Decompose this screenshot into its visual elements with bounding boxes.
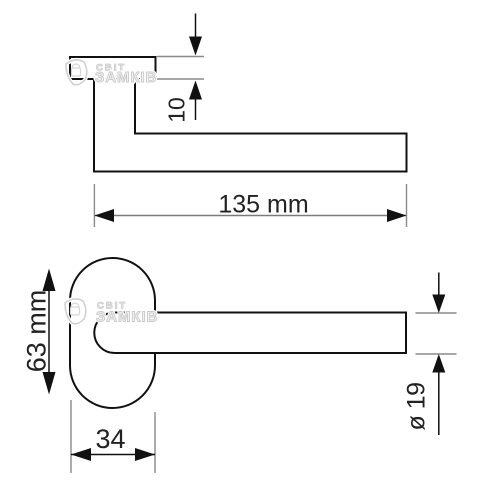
dimension line 135 mm <box>94 209 406 222</box>
extension line left (34) <box>70 400 72 473</box>
lower arrow (up) for ø19 <box>432 354 445 435</box>
lever bar side view <box>94 313 406 354</box>
extension line right (135) <box>406 184 408 227</box>
reference line top of lever (ø19) <box>416 312 457 314</box>
top thickness arrow (down) <box>189 14 202 56</box>
svg-text:ø 19: ø 19 <box>403 382 431 430</box>
watermark 2 (logo over rosette) <box>65 299 158 326</box>
grip bar top view rectangle <box>70 57 156 79</box>
svg-text:34: 34 <box>95 424 125 454</box>
reference line bottom of bar <box>157 78 204 80</box>
svg-text:10: 10 <box>164 97 190 123</box>
rosette oval side view <box>70 258 155 408</box>
reference line bottom of lever (ø19) <box>416 353 457 355</box>
extension line right (34) <box>154 412 156 473</box>
svg-text:ЗАМКІВ: ЗАМКІВ <box>95 69 157 86</box>
svg-text:ЗАМКІВ: ЗАМКІВ <box>96 309 158 326</box>
handle top-view outline (neck and lever) <box>94 79 407 172</box>
svg-text:63 mm: 63 mm <box>22 290 52 373</box>
svg-text:135 mm: 135 mm <box>218 191 308 219</box>
upper arrow (down) for ø19 <box>432 273 445 314</box>
dimension line 34 <box>71 448 155 461</box>
watermark 1 (logo over grip bar) <box>66 60 157 86</box>
reference line top of bar <box>157 56 204 58</box>
dimension 10 arrow (up) <box>189 81 202 121</box>
dimension 63 mm (vertical double arrow) <box>43 269 56 395</box>
extension line left (135) <box>93 184 95 227</box>
